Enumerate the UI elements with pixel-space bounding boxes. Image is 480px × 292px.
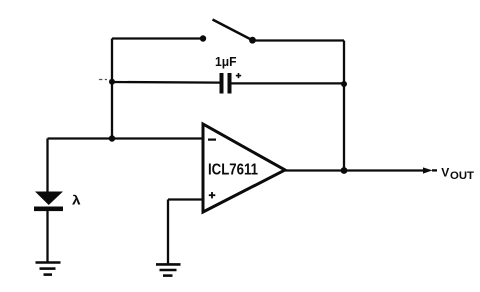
svg-text:OUT: OUT [450, 170, 474, 182]
op-amp non-inverting pin plus symbol [209, 192, 216, 198]
node junction output / feedback vertical [341, 167, 348, 174]
wire non-inverting input horizontal [168, 198, 203, 200]
node switch left contact [200, 35, 206, 41]
switch S1 arm [213, 20, 253, 41]
svg-text:ICL7611: ICL7611 [208, 162, 258, 179]
node junction cap wire / right vertical [341, 81, 347, 87]
wire non-inverting input vertical to ground [167, 200, 169, 264]
wire photodiode cathode to ground [46, 211, 48, 262]
label capacitor polarity + [236, 73, 241, 78]
svg-text:V: V [441, 166, 449, 180]
wire capacitor right lead [232, 82, 345, 84]
ground left [36, 263, 61, 275]
node switch right contact [249, 37, 256, 44]
wire top feedback left segment [112, 37, 202, 39]
wire top feedback right segment [253, 39, 345, 41]
svg-text:1μF: 1μF [215, 54, 237, 69]
op-amp inverting pin minus symbol [208, 139, 216, 141]
ground middle [156, 264, 181, 275]
arrowhead output [423, 167, 433, 173]
wire right feedback vertical [343, 41, 345, 171]
wire output arrow tail dash [432, 169, 437, 171]
op-amp U1 ICL7611 body [203, 124, 285, 212]
photodiode D1 triangle [35, 192, 63, 206]
wire left feedback vertical [111, 39, 113, 139]
wire capacitor left lead [112, 81, 220, 84]
node junction input wire / feedback vertical [109, 135, 115, 141]
wire photodiode anode vertical [46, 139, 48, 193]
node junction cap wire / left vertical [109, 79, 115, 85]
capacitor C1 1uF plates [222, 73, 230, 94]
wire output horizontal [285, 169, 424, 171]
svg-text:λ: λ [72, 194, 81, 208]
wire dash artifact left of junction [99, 79, 107, 81]
wire inverting input horizontal [48, 137, 203, 139]
photodiode D1 cathode bar [34, 207, 63, 212]
